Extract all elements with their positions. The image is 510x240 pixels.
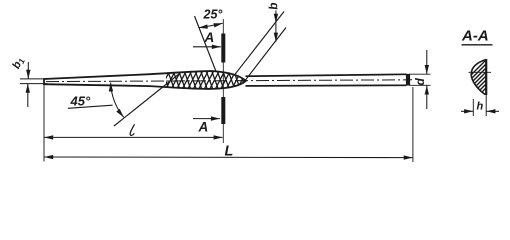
dimension d: arrows outside — [426, 50, 428, 74]
section plane reference line (thin vertical) — [222, 19, 224, 143]
extension line right (from handle end) — [412, 87, 414, 162]
dimension l line with arrows — [44, 136, 222, 138]
dimension b1: extension lines at tang tip — [20, 78, 48, 80]
centerline (axis, dash-dot) — [46, 80, 412, 82]
svg-text:h: h — [477, 101, 484, 113]
label l — [130, 124, 134, 135]
25-degree cut line (auxiliary cut extended) — [195, 16, 217, 72]
section line A thick tick bottom — [221, 97, 225, 124]
svg-text:25°: 25° — [203, 8, 224, 22]
svg-text:A: A — [204, 30, 215, 45]
handle (knurled grip, drawn as bar) — [246, 74, 407, 76]
file body outline (tang + working part, side view) — [44, 71, 246, 89]
dimension h: extension lines — [472, 99, 474, 116]
section A-A outline (half-round profile) — [471, 60, 486, 95]
cross-hatch (file cut pattern) — [152, 63, 262, 96]
angle 25 arc with arrows — [199, 23, 223, 27]
svg-text:b: b — [266, 2, 281, 11]
svg-text:d: d — [413, 78, 427, 86]
svg-text:A: A — [198, 120, 209, 135]
dimension d: extension lines from handle end — [409, 73, 431, 75]
svg-text:45°: 45° — [70, 94, 91, 109]
extension line left (from tang tip) — [43, 85, 45, 162]
dimension b: arrows — [275, 11, 277, 23]
arrow A bottom — [193, 118, 220, 120]
dimension b: extended cut lines (two parallel diagonals) — [235, 12, 284, 75]
handle end cap — [406, 74, 410, 86]
arrow A top — [193, 46, 221, 48]
section A-A centerline tick — [469, 71, 492, 73]
dimension h: arrows outside — [461, 110, 473, 112]
45-degree cut line (hatch line extended) — [114, 74, 179, 126]
dimension b1: arrows outside — [27, 62, 29, 79]
section A-A hatching — [449, 61, 510, 97]
section line A thick tick top — [221, 34, 225, 63]
svg-text:A-A: A-A — [461, 28, 489, 45]
svg-text:L: L — [225, 144, 234, 160]
dimension L line with arrows — [44, 156, 413, 159]
angle 45 arc with arrows — [111, 83, 124, 118]
svg-text:b1: b1 — [10, 55, 27, 71]
